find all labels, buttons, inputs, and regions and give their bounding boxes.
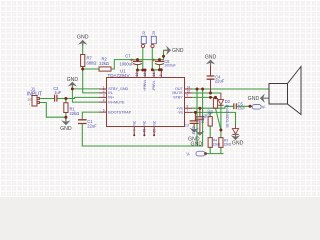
svg-text:1000uF: 1000uF [120,62,134,67]
svg-text:TDA7294V: TDA7294V [108,73,130,78]
svg-text:9: 9 [187,94,189,98]
svg-text:7: 7 [187,109,189,113]
svg-text:15: 15 [143,72,147,76]
svg-text:22kΩ: 22kΩ [224,142,232,146]
svg-text:16: 16 [152,72,156,76]
svg-text:1N4148DO-35: 1N4148DO-35 [225,104,229,127]
svg-text:12: 12 [152,129,156,133]
svg-text:IN-: IN- [108,91,114,95]
svg-text:V-: V- [262,105,267,110]
svg-text:0.1uF: 0.1uF [191,127,195,135]
svg-text:10: 10 [187,89,191,93]
svg-text:22uF: 22uF [87,123,97,128]
svg-text:22kΩ: 22kΩ [201,115,205,123]
svg-text:GND: GND [191,141,203,147]
svg-text:1000uF: 1000uF [164,64,176,68]
svg-text:22uF: 22uF [238,106,246,110]
svg-text:GND: GND [172,48,184,54]
svg-text:NC: NC [133,120,137,125]
svg-text:680Ω: 680Ω [87,61,97,66]
svg-text:1uF: 1uF [54,90,62,95]
svg-text:2: 2 [103,89,105,93]
svg-text:GND: GND [67,77,79,83]
svg-text:C7: C7 [125,54,131,59]
svg-text:NC: NC [152,120,156,125]
svg-text:13: 13 [135,72,139,76]
svg-text:22uF: 22uF [215,78,225,83]
svg-text:5: 5 [159,74,163,76]
svg-text:3: 3 [103,94,105,98]
svg-text:GND: GND [60,126,72,132]
svg-text:↓: ↓ [29,102,31,106]
svg-text:GND: GND [205,54,217,60]
svg-text:IN+: IN+ [108,96,114,100]
svg-text:V-: V- [186,151,191,156]
svg-text:22kΩ: 22kΩ [99,61,109,66]
svg-text:-PWVs: -PWVs [152,80,156,91]
svg-text:11: 11 [142,129,146,133]
svg-text:IN+MUTE: IN+MUTE [108,100,125,104]
svg-text:GND: GND [248,96,260,102]
svg-text:NC: NC [143,120,147,125]
svg-text:GND: GND [232,140,244,146]
svg-text:22kΩ: 22kΩ [213,142,221,146]
svg-text:-Vs: -Vs [177,111,183,115]
svg-text:GND: GND [77,35,89,41]
svg-text:D2: D2 [225,99,231,104]
svg-text:MUTE: MUTE [172,91,183,95]
svg-text:1x2: 1x2 [27,97,32,101]
svg-text:STBY: STBY [173,96,183,100]
svg-text:C3: C3 [185,124,189,128]
svg-text:BOOTSTRAP: BOOTSTRAP [108,110,131,114]
svg-text:4: 4 [132,129,136,131]
svg-text:+PWVs: +PWVs [143,80,147,91]
svg-text:22kΩ: 22kΩ [70,111,80,116]
svg-text:4: 4 [103,98,105,102]
svg-text:6: 6 [103,108,105,112]
